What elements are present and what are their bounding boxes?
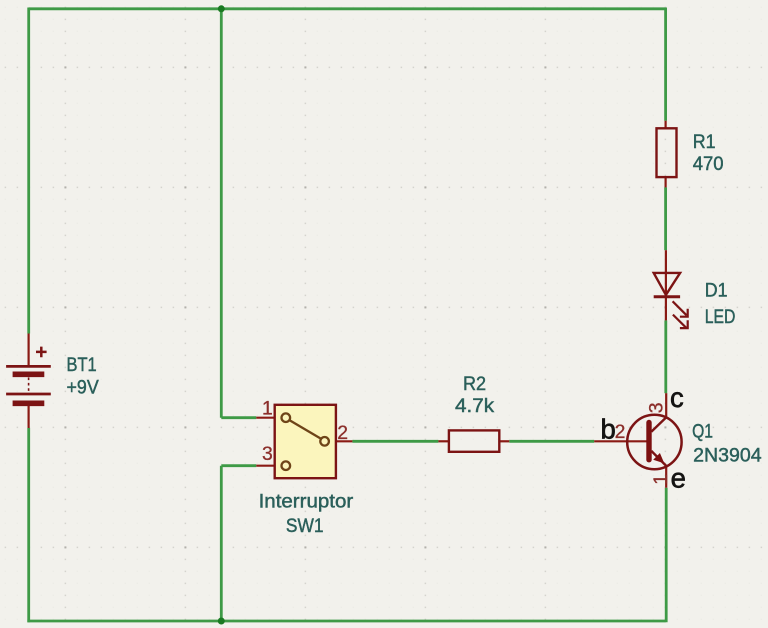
svg-text:+9V: +9V — [67, 377, 99, 398]
svg-text:3: 3 — [646, 403, 668, 414]
svg-text:2: 2 — [615, 421, 626, 443]
svg-text:b: b — [601, 414, 616, 445]
svg-text:2N3904: 2N3904 — [693, 446, 762, 467]
svg-text:2: 2 — [337, 422, 348, 444]
svg-text:BT1: BT1 — [67, 355, 97, 376]
svg-text:e: e — [671, 463, 686, 494]
svg-text:R2: R2 — [463, 374, 486, 395]
svg-text:R1: R1 — [693, 132, 716, 153]
svg-text:470: 470 — [693, 154, 724, 175]
svg-text:D1: D1 — [705, 281, 728, 302]
svg-text:Interruptor: Interruptor — [259, 492, 354, 513]
svg-text:LED: LED — [705, 307, 736, 328]
svg-text:SW1: SW1 — [286, 516, 324, 537]
svg-text:1: 1 — [650, 474, 672, 485]
svg-text:Q1: Q1 — [692, 421, 713, 442]
svg-text:4.7k: 4.7k — [455, 396, 494, 417]
svg-text:1: 1 — [262, 398, 273, 420]
svg-text:c: c — [670, 382, 684, 413]
svg-text:3: 3 — [262, 443, 273, 465]
